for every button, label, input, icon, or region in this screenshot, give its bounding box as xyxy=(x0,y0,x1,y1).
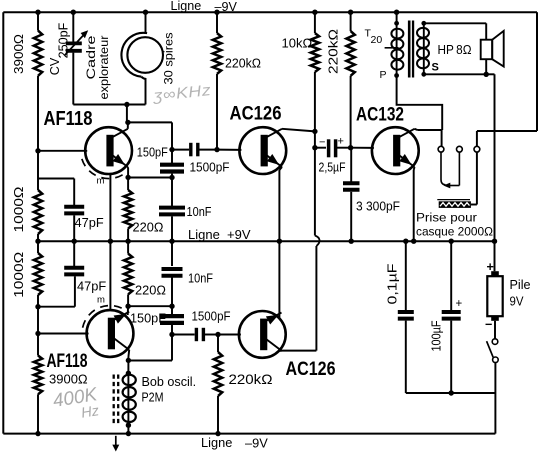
loop antenna cadre explorateur xyxy=(121,33,163,79)
svg-text:+: + xyxy=(456,298,463,310)
wire Q4 emitter up to rail xyxy=(278,241,280,318)
svg-text:150pF: 150pF xyxy=(130,312,166,326)
capacitor C10 1500pF xyxy=(196,328,203,341)
label AF118 (Q1) xyxy=(44,107,93,130)
transformer T20 core xyxy=(408,21,414,78)
svg-text:100µF: 100µF xyxy=(430,320,444,351)
transistor Q3 AC126 xyxy=(239,127,286,174)
svg-text:AC126: AC126 xyxy=(286,358,336,380)
wire 1500pF-1 right lead xyxy=(199,149,217,151)
node 150pF-2 top xyxy=(169,304,174,309)
label 100uF (vertical) xyxy=(430,320,444,351)
label explorateur (vertical) xyxy=(97,36,111,100)
wire 1500pF-2 left lead xyxy=(172,334,195,336)
label 220kohm (R9, vertical) xyxy=(326,29,341,74)
svg-text:0,1µF: 0,1µF xyxy=(385,263,400,304)
wire capacitor return line xyxy=(406,392,496,394)
capacitor C12 100uF xyxy=(442,312,461,319)
node 220 column / rail xyxy=(125,239,130,244)
svg-text:Cadre: Cadre xyxy=(84,35,98,79)
wire Q5 emitter down to rail xyxy=(413,167,416,241)
resistor R2 1000ohm xyxy=(34,190,42,234)
wire 220k-2 top stub xyxy=(350,12,352,31)
svg-text:CV: CV xyxy=(48,57,62,75)
node primary bottom xyxy=(394,73,399,78)
svg-text:+9V: +9V xyxy=(227,227,251,242)
label 1500pF (C10) xyxy=(192,309,231,323)
label 1500pF (C6) xyxy=(190,160,230,174)
wire shield lead m (between AF118s) xyxy=(109,174,111,310)
wire 1500pF-2 right lead xyxy=(205,334,218,336)
node AC126 emitters / rail xyxy=(277,239,282,244)
label CV (vertical) xyxy=(48,57,62,75)
transistor Q2 AF118 xyxy=(87,310,134,357)
svg-text:2,5µF: 2,5µF xyxy=(319,161,346,175)
wire 220k-1 top stub xyxy=(216,12,218,33)
wire 10k top stub xyxy=(314,12,316,33)
svg-text:AC132: AC132 xyxy=(356,104,404,126)
wire Q3 collector to 10k node xyxy=(282,129,315,132)
label minus (C7) xyxy=(319,137,325,149)
wire secondary top to speaker xyxy=(424,23,486,39)
wire base AC132 xyxy=(351,147,374,149)
label casque 2000ohm xyxy=(416,225,493,239)
label 220kohm (R10) xyxy=(229,372,273,387)
headphone plug coil xyxy=(437,200,471,208)
wire Ligne +9V rail xyxy=(38,240,495,242)
wire top Ligne -9V rail xyxy=(3,11,537,13)
wire collector node up to cadre xyxy=(126,105,128,123)
label AC132 (Q5) xyxy=(356,104,404,126)
label 150pF (C9) xyxy=(130,312,166,326)
resistor R5 220ohm xyxy=(124,190,132,229)
node coil / bottom rail xyxy=(126,431,131,436)
wire coil to bottom rail xyxy=(127,425,129,433)
svg-text:1500pF: 1500pF xyxy=(190,160,230,174)
label 150pF (C3) xyxy=(137,146,168,160)
core adjust arrow xyxy=(112,436,119,452)
resistor R4 3900ohm xyxy=(34,356,42,395)
wire Q1 emitter to node xyxy=(127,167,129,177)
node coil bottom xyxy=(126,423,131,428)
svg-text:220kΩ: 220kΩ xyxy=(326,29,341,74)
switch contact 2 xyxy=(493,357,499,363)
svg-text:1500pF: 1500pF xyxy=(192,309,231,323)
wire primary to jack c1 xyxy=(397,76,443,131)
wire 220-1 to rail xyxy=(127,229,129,242)
node Q1 collector xyxy=(125,120,130,125)
label plus (battery) xyxy=(487,260,494,274)
capacitor C9 150pF xyxy=(160,316,184,323)
pencil note 400K Hz xyxy=(51,384,102,426)
label 3300pF (C8) xyxy=(356,200,400,214)
wire 100uF bottom lead xyxy=(450,321,452,393)
capacitor C6 1500pF xyxy=(191,143,198,157)
wire return jog xyxy=(486,73,494,75)
svg-text:3900Ω: 3900Ω xyxy=(49,372,88,387)
label Cadre (vertical) xyxy=(84,35,98,79)
label 0,1uF (vertical) xyxy=(385,263,400,304)
label P (primary) xyxy=(380,69,387,81)
wire 220-2 to collector node xyxy=(127,294,129,306)
speaker HP driver box xyxy=(481,40,493,60)
wire battery top lead xyxy=(494,241,496,271)
wire hop to AC126-2 collector xyxy=(279,246,316,351)
wire collector node to 2.5uF tap xyxy=(314,131,316,147)
svg-text:S: S xyxy=(432,62,439,74)
wire 47pF-2 lead xyxy=(73,241,75,266)
node 1500pF-2 tap xyxy=(169,332,174,337)
shield dashed arc AF118-1 xyxy=(81,156,122,178)
wire left border xyxy=(2,12,4,433)
node cadre tap xyxy=(124,102,129,107)
node AC126-1 base xyxy=(214,147,219,152)
label Ligne -9V (top) xyxy=(171,0,238,14)
node 10k / top rail xyxy=(312,10,317,15)
node 220k-2 / top rail xyxy=(348,10,353,15)
wire R3 to base2 node xyxy=(37,295,39,334)
jack contact circle 2 xyxy=(457,146,463,152)
label S (secondary) xyxy=(432,62,439,74)
wire 47pF-1 top tap xyxy=(38,178,74,180)
resistor R8 10kohm xyxy=(311,33,319,72)
wire 1500pF-1 left lead xyxy=(172,149,189,151)
wire 150pF-2 top lead xyxy=(171,306,173,314)
inductor Bob oscil. P2M winding xyxy=(123,373,136,425)
svg-text:HP 8Ω: HP 8Ω xyxy=(438,43,472,57)
node Q3 collector xyxy=(312,129,317,134)
inductor core (dashed) xyxy=(114,375,119,426)
svg-text:150pF: 150pF xyxy=(137,146,168,160)
wire 150pF-2 bottom lead xyxy=(171,325,173,335)
wire Q2 collector stub xyxy=(127,306,129,315)
svg-text:AF118: AF118 xyxy=(47,351,88,372)
wire 47pF-2 bottom lead xyxy=(74,276,76,306)
wire base AC126-1 xyxy=(217,149,241,151)
label T20 xyxy=(365,28,383,47)
node 220k-1 / top rail xyxy=(214,10,219,15)
label AC126 (Q4) xyxy=(286,358,336,380)
label Pile xyxy=(510,278,531,292)
wire down to +9V hop xyxy=(314,148,316,236)
svg-text:220Ω: 220Ω xyxy=(135,283,166,298)
node 2.5uF tap xyxy=(312,145,317,150)
wire 220k-3 top xyxy=(217,335,219,353)
node 220k-3 / bottom rail xyxy=(215,431,220,436)
svg-text:220kΩ: 220kΩ xyxy=(229,372,273,387)
svg-text:Hz: Hz xyxy=(80,403,101,422)
svg-text:explorateur: explorateur xyxy=(97,36,111,100)
svg-text:47pF: 47pF xyxy=(77,279,106,294)
label m (AF118-2 shield) xyxy=(97,295,105,306)
wire C1 seg2 xyxy=(37,151,39,190)
node AC132 emitter / rail xyxy=(411,239,416,244)
svg-text:9V: 9V xyxy=(510,295,525,309)
capacitor C13 10nF xyxy=(162,269,183,276)
svg-text:Bob oscil.: Bob oscil. xyxy=(142,375,197,389)
label AF118 (T2) xyxy=(47,351,88,372)
node primary / top rail xyxy=(394,10,399,15)
node secondary top xyxy=(421,21,426,26)
node speaker return xyxy=(484,72,489,77)
resistor R6 220ohm xyxy=(124,254,132,295)
wire Q2 lower lead to node xyxy=(127,350,130,361)
svg-text:3 300pF: 3 300pF xyxy=(356,200,400,214)
label m (AF118-1 shield) xyxy=(97,176,105,187)
node 1500pF tap xyxy=(169,147,174,152)
wire 100uF top lead xyxy=(450,241,452,310)
jack contact circle 3 xyxy=(474,146,480,152)
wire 47pF-1 to rail xyxy=(73,215,75,241)
node top of 3900 ohm xyxy=(35,10,40,15)
wire right return vertical xyxy=(494,74,496,241)
label 1000ohm (R3, vertical) xyxy=(11,252,26,298)
svg-text:Pile: Pile xyxy=(510,278,531,292)
resistor R1 3900ohm xyxy=(34,31,42,76)
wire speaker bottom xyxy=(485,59,487,74)
wire switch to bottom rail xyxy=(494,363,496,434)
wire 10nF-2 top lead xyxy=(171,241,173,266)
label 250pF (vertical) xyxy=(56,22,70,58)
wire 10nF to rail xyxy=(171,216,173,241)
svg-text:–9V: –9V xyxy=(245,435,268,450)
label Bob oscil. xyxy=(142,375,197,389)
svg-text:10kΩ: 10kΩ xyxy=(282,36,313,51)
node 150pF bottom xyxy=(169,175,174,180)
transistor Q4 AC126 xyxy=(239,311,286,358)
node Q2 collector xyxy=(125,304,130,309)
node 47pF column / rail xyxy=(72,239,77,244)
wire CV bottom lead xyxy=(72,53,74,105)
battery Pile 9V xyxy=(487,271,502,321)
svg-text:m: m xyxy=(97,176,105,187)
svg-text:AF118: AF118 xyxy=(44,107,93,130)
wire Q4 collector exit xyxy=(279,350,281,352)
label 3900ohm (R1, vertical) xyxy=(12,34,26,74)
node 3300pF / rail xyxy=(349,239,354,244)
wire base AF118-2 xyxy=(38,333,89,335)
capacitor C4 10nF xyxy=(159,208,185,215)
wire jack common to border xyxy=(477,130,537,132)
wire 150pF to emitter node xyxy=(171,174,173,206)
node 47pF-2 tap xyxy=(35,304,40,309)
wire R2 to +9V rail xyxy=(37,234,39,241)
node Q2 emitter xyxy=(126,358,131,363)
node primary top xyxy=(394,21,399,26)
label P2M xyxy=(142,391,164,405)
wire 10nF-2 bottom lead xyxy=(171,275,173,306)
node AC126-2 base xyxy=(215,332,220,337)
label 10nF (C13) xyxy=(188,272,213,286)
svg-text:47pF: 47pF xyxy=(75,215,104,230)
wire cadre bottom link xyxy=(73,104,145,106)
wire 220-1 top xyxy=(127,177,129,190)
svg-text:30 spires: 30 spires xyxy=(161,33,175,85)
wire emitter2 to feedback corner xyxy=(128,335,172,361)
label HP 8ohm xyxy=(438,43,472,57)
svg-text:20: 20 xyxy=(371,34,383,46)
label plus (C12) xyxy=(456,298,463,310)
label 30 spires (vertical) xyxy=(161,33,175,85)
node secondary bottom xyxy=(421,72,426,77)
label Prise pour xyxy=(416,211,477,225)
capacitor C11 0.1uF xyxy=(398,312,414,319)
wire base AC126-2 xyxy=(218,334,241,336)
label Ligne -9V (bottom) xyxy=(201,435,268,450)
label 10kohm (R8) xyxy=(282,36,313,51)
wire loop bottom lead xyxy=(145,78,147,105)
label 220ohm (R6) xyxy=(135,283,166,298)
node Q1 emitter xyxy=(125,175,130,180)
wire Q5 collector to jack xyxy=(415,129,442,147)
resistor R10 220kohm xyxy=(214,352,222,396)
wire 2.5uF right lead xyxy=(337,147,351,149)
node coil top xyxy=(126,371,131,376)
wire primary tap line xyxy=(385,47,399,49)
svg-text:10nF: 10nF xyxy=(188,272,213,286)
wire 220-2 top xyxy=(127,241,129,253)
label 47pF (C5) xyxy=(77,279,106,294)
wire 3300pF to rail xyxy=(350,192,352,241)
wire right border xyxy=(536,12,538,131)
jack lever arrow xyxy=(443,183,459,189)
label plus (C7) xyxy=(338,136,344,148)
label 2,5uF (C7) xyxy=(319,161,346,175)
label minus (battery) xyxy=(485,318,492,332)
svg-text:1000Ω: 1000Ω xyxy=(11,186,26,232)
jack contact circle 1 xyxy=(438,146,444,152)
label 1000ohm (R2, vertical) xyxy=(11,186,26,232)
svg-text:Ligne: Ligne xyxy=(201,435,232,450)
resistor R3 1000ohm xyxy=(34,253,42,295)
resistor R7 220kohm xyxy=(213,33,221,74)
wire base AF118-1 xyxy=(38,150,87,152)
wire c1 lower curl xyxy=(441,152,446,185)
svg-text:m: m xyxy=(97,295,105,306)
wire R1 to base node xyxy=(37,76,39,151)
wire 3300pF top lead xyxy=(350,148,352,182)
node 100uF / return xyxy=(449,390,454,395)
svg-text:10nF: 10nF xyxy=(187,205,212,219)
speaker HP horn xyxy=(492,31,504,67)
capacitor C2 47pF xyxy=(64,207,84,214)
wire battery to switch xyxy=(494,321,496,339)
label 10nF (C4) xyxy=(187,205,212,219)
variable capacitor CV 250pF xyxy=(65,30,89,55)
wire secondary bottom to return xyxy=(424,73,486,75)
transistor Q5 AC132 xyxy=(372,127,419,174)
wire loop top lead xyxy=(145,12,147,33)
transformer T20 secondary winding xyxy=(417,23,429,74)
node R2/rail xyxy=(35,239,40,244)
capacitor C8 3300pF xyxy=(343,183,360,190)
label AC126 (Q3) xyxy=(230,103,282,125)
label 220kohm (R7) xyxy=(225,56,261,71)
wire C1 seg4 xyxy=(37,334,39,356)
pencil note 300KHz xyxy=(152,82,213,105)
node base AF118-2 tap xyxy=(35,331,40,336)
svg-text:P2M: P2M xyxy=(142,391,164,405)
wire 2.5uF left lead xyxy=(315,147,326,149)
shield dashed arc AF118-2 xyxy=(83,306,124,328)
wire 0.1uF top lead xyxy=(405,241,407,310)
wire emitter to 150pF node xyxy=(128,177,172,179)
node base AF118-1 tap xyxy=(35,148,40,153)
svg-text:P: P xyxy=(380,69,387,81)
svg-text:+: + xyxy=(338,136,344,148)
wire R4 to bottom rail xyxy=(37,394,39,433)
label 220ohm (R5) xyxy=(133,220,164,235)
switch lever xyxy=(487,341,494,357)
node loop / top rail xyxy=(143,10,148,15)
svg-text:250pF: 250pF xyxy=(56,22,70,58)
wire Q3 emitter down to rail xyxy=(279,167,282,241)
svg-text:casque 2000Ω: casque 2000Ω xyxy=(416,225,493,239)
wire lever to c2 xyxy=(458,152,460,185)
label Ligne +9V xyxy=(188,227,251,242)
resistor R9 220kohm xyxy=(346,31,354,76)
wire Q1 collector to top node xyxy=(127,122,129,128)
node 10nF column / rail xyxy=(169,239,174,244)
wire 220k-1 to base node xyxy=(216,74,218,150)
wire 220k-3 to bottom rail xyxy=(217,396,219,434)
svg-text:AC126: AC126 xyxy=(230,103,282,125)
svg-text:1000Ω: 1000Ω xyxy=(11,252,26,298)
node R4/bottom rail xyxy=(35,431,40,436)
wire 220k-2 to base node xyxy=(350,76,352,148)
svg-text:3900Ω: 3900Ω xyxy=(12,34,26,74)
wire collector1 node to CK xyxy=(128,122,172,163)
wire C1 seg3 xyxy=(37,241,39,253)
node CV / top rail xyxy=(71,10,76,15)
wire bottom Ligne -9V rail xyxy=(3,433,495,435)
label 9V xyxy=(510,295,525,309)
wire CV top stub xyxy=(72,12,74,42)
wire c3 down to plug xyxy=(471,152,477,204)
svg-text:−: − xyxy=(485,318,492,332)
node 0.1uF / rail xyxy=(403,239,408,244)
node AC132 base xyxy=(348,145,353,150)
svg-text:Ligne: Ligne xyxy=(188,227,220,242)
capacitor C7 2.5uF xyxy=(329,139,336,157)
svg-text:220Ω: 220Ω xyxy=(133,220,164,235)
wire c3 up xyxy=(476,131,478,146)
label 3900ohm (R4) xyxy=(49,372,88,387)
svg-text:Ligne: Ligne xyxy=(171,0,202,13)
capacitor C5 47pF xyxy=(64,268,84,275)
label 47pF (C2) xyxy=(75,215,104,230)
node battery / rail xyxy=(492,239,497,244)
wire 47pF-2 bottom tap xyxy=(38,306,75,308)
svg-text:220kΩ: 220kΩ xyxy=(225,56,261,71)
node 100uF / rail xyxy=(449,239,454,244)
wire 47pF-1 lead xyxy=(73,179,75,206)
wire collector2 node to 150pF-2 xyxy=(128,305,172,307)
svg-text:−: − xyxy=(319,137,325,149)
capacitor C3 150pF xyxy=(160,165,184,172)
wire emitter2 to coil xyxy=(127,360,129,373)
wire 10k to collector node xyxy=(314,72,316,131)
svg-text:Prise pour: Prise pour xyxy=(416,211,477,225)
wire hop over +9V rail xyxy=(315,236,320,247)
wire 3900-1 top stub xyxy=(37,12,39,30)
wire 0.1uF bottom lead xyxy=(405,321,407,393)
switch contact 1 xyxy=(492,339,498,345)
transformer T20 primary winding xyxy=(391,23,403,75)
wire primary top stub xyxy=(396,12,398,23)
node shield/rail xyxy=(108,239,113,244)
transistor Q1 AF118 xyxy=(85,127,132,174)
